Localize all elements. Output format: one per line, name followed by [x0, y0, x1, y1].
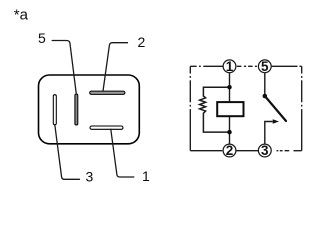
svg-text:5: 5 [38, 30, 46, 46]
svg-text:2: 2 [226, 143, 234, 158]
svg-text:1: 1 [142, 168, 150, 184]
svg-text:2: 2 [138, 34, 146, 50]
svg-text:1: 1 [226, 59, 234, 74]
svg-text:3: 3 [261, 143, 269, 158]
svg-text:*a: *a [14, 6, 29, 23]
svg-text:3: 3 [86, 168, 94, 184]
svg-text:5: 5 [261, 59, 269, 74]
